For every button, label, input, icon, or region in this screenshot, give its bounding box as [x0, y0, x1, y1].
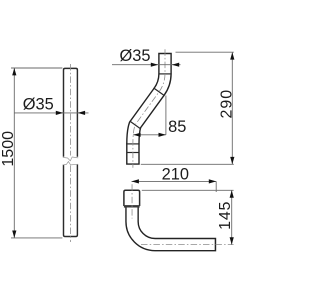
svg-text:1500: 1500 — [0, 131, 17, 167]
dimension d35 left leader — [14, 112, 88, 114]
dimension 145 arrow down — [230, 237, 234, 244]
dimension 1500 arrow down — [12, 231, 16, 238]
dimension 1500 extension line bottom — [11, 237, 62, 239]
svg-text:Ø35: Ø35 — [23, 95, 54, 113]
dimension 85 arrow right — [159, 133, 166, 137]
elbow horizontal centerline — [141, 244, 234, 246]
dimension 85 extension line (vertical from top centerline) — [165, 96, 167, 135]
svg-text:290: 290 — [218, 89, 235, 119]
svg-text:145: 145 — [217, 201, 234, 230]
S-pipe seam at top bend — [158, 73, 171, 75]
dimension 145 line — [231, 190, 233, 244]
dimension 85 line — [133, 134, 166, 136]
d35 arrow at left edge of S-pipe — [151, 63, 158, 67]
dimension 290 extension top — [176, 51, 234, 53]
S-pipe seam bottom joint — [127, 152, 139, 154]
dimension 1500 line — [13, 68, 15, 238]
svg-text:Ø35: Ø35 — [120, 47, 151, 65]
S-pipe seam above bottom — [126, 143, 140, 145]
break symbol lower zigzag — [63, 161, 78, 165]
dimension 145 extension top — [142, 189, 234, 191]
svg-text:85: 85 — [168, 118, 186, 136]
dimension 210 right extension — [215, 181, 217, 192]
dimension 290 arrow down — [230, 157, 234, 164]
elbow pipe sleeve (bottom figure) — [124, 190, 140, 206]
S-pipe centerline — [133, 49, 165, 168]
svg-text:210: 210 — [162, 166, 189, 184]
dimension 85 arrow left — [133, 133, 140, 137]
dimension 145 arrow up — [230, 190, 234, 197]
d35 arrow at right edge of S-pipe — [172, 63, 179, 67]
dimension 290 extension bottom — [141, 163, 234, 165]
dimension 1500 arrow up — [12, 68, 16, 75]
d35 top-right leader line — [112, 64, 181, 66]
dimension 290 arrow up — [230, 52, 234, 59]
elbow vertical centerline — [131, 184, 133, 218]
dimension 210 arrow right — [209, 179, 216, 183]
S-pipe tube (top right figure) — [133, 53, 165, 165]
dimension 210 arrow left — [132, 179, 139, 183]
centerline of straight pipe — [69, 64, 71, 156]
d35 right arrow pointing left — [78, 111, 85, 115]
d35 left arrow pointing right — [56, 111, 63, 115]
dimension 1500 extension line top — [11, 67, 62, 69]
S-pipe seam upper diagonal — [154, 88, 165, 96]
S-pipe seam lower diagonal — [130, 121, 141, 129]
elbow tube — [132, 208, 216, 245]
elbow sleeve band — [124, 205, 140, 208]
dimension 290 line — [231, 52, 233, 164]
break symbol upper zigzag — [63, 157, 78, 161]
straight pipe body (left figure) — [64, 68, 78, 236]
dimension 210 line — [132, 180, 217, 182]
